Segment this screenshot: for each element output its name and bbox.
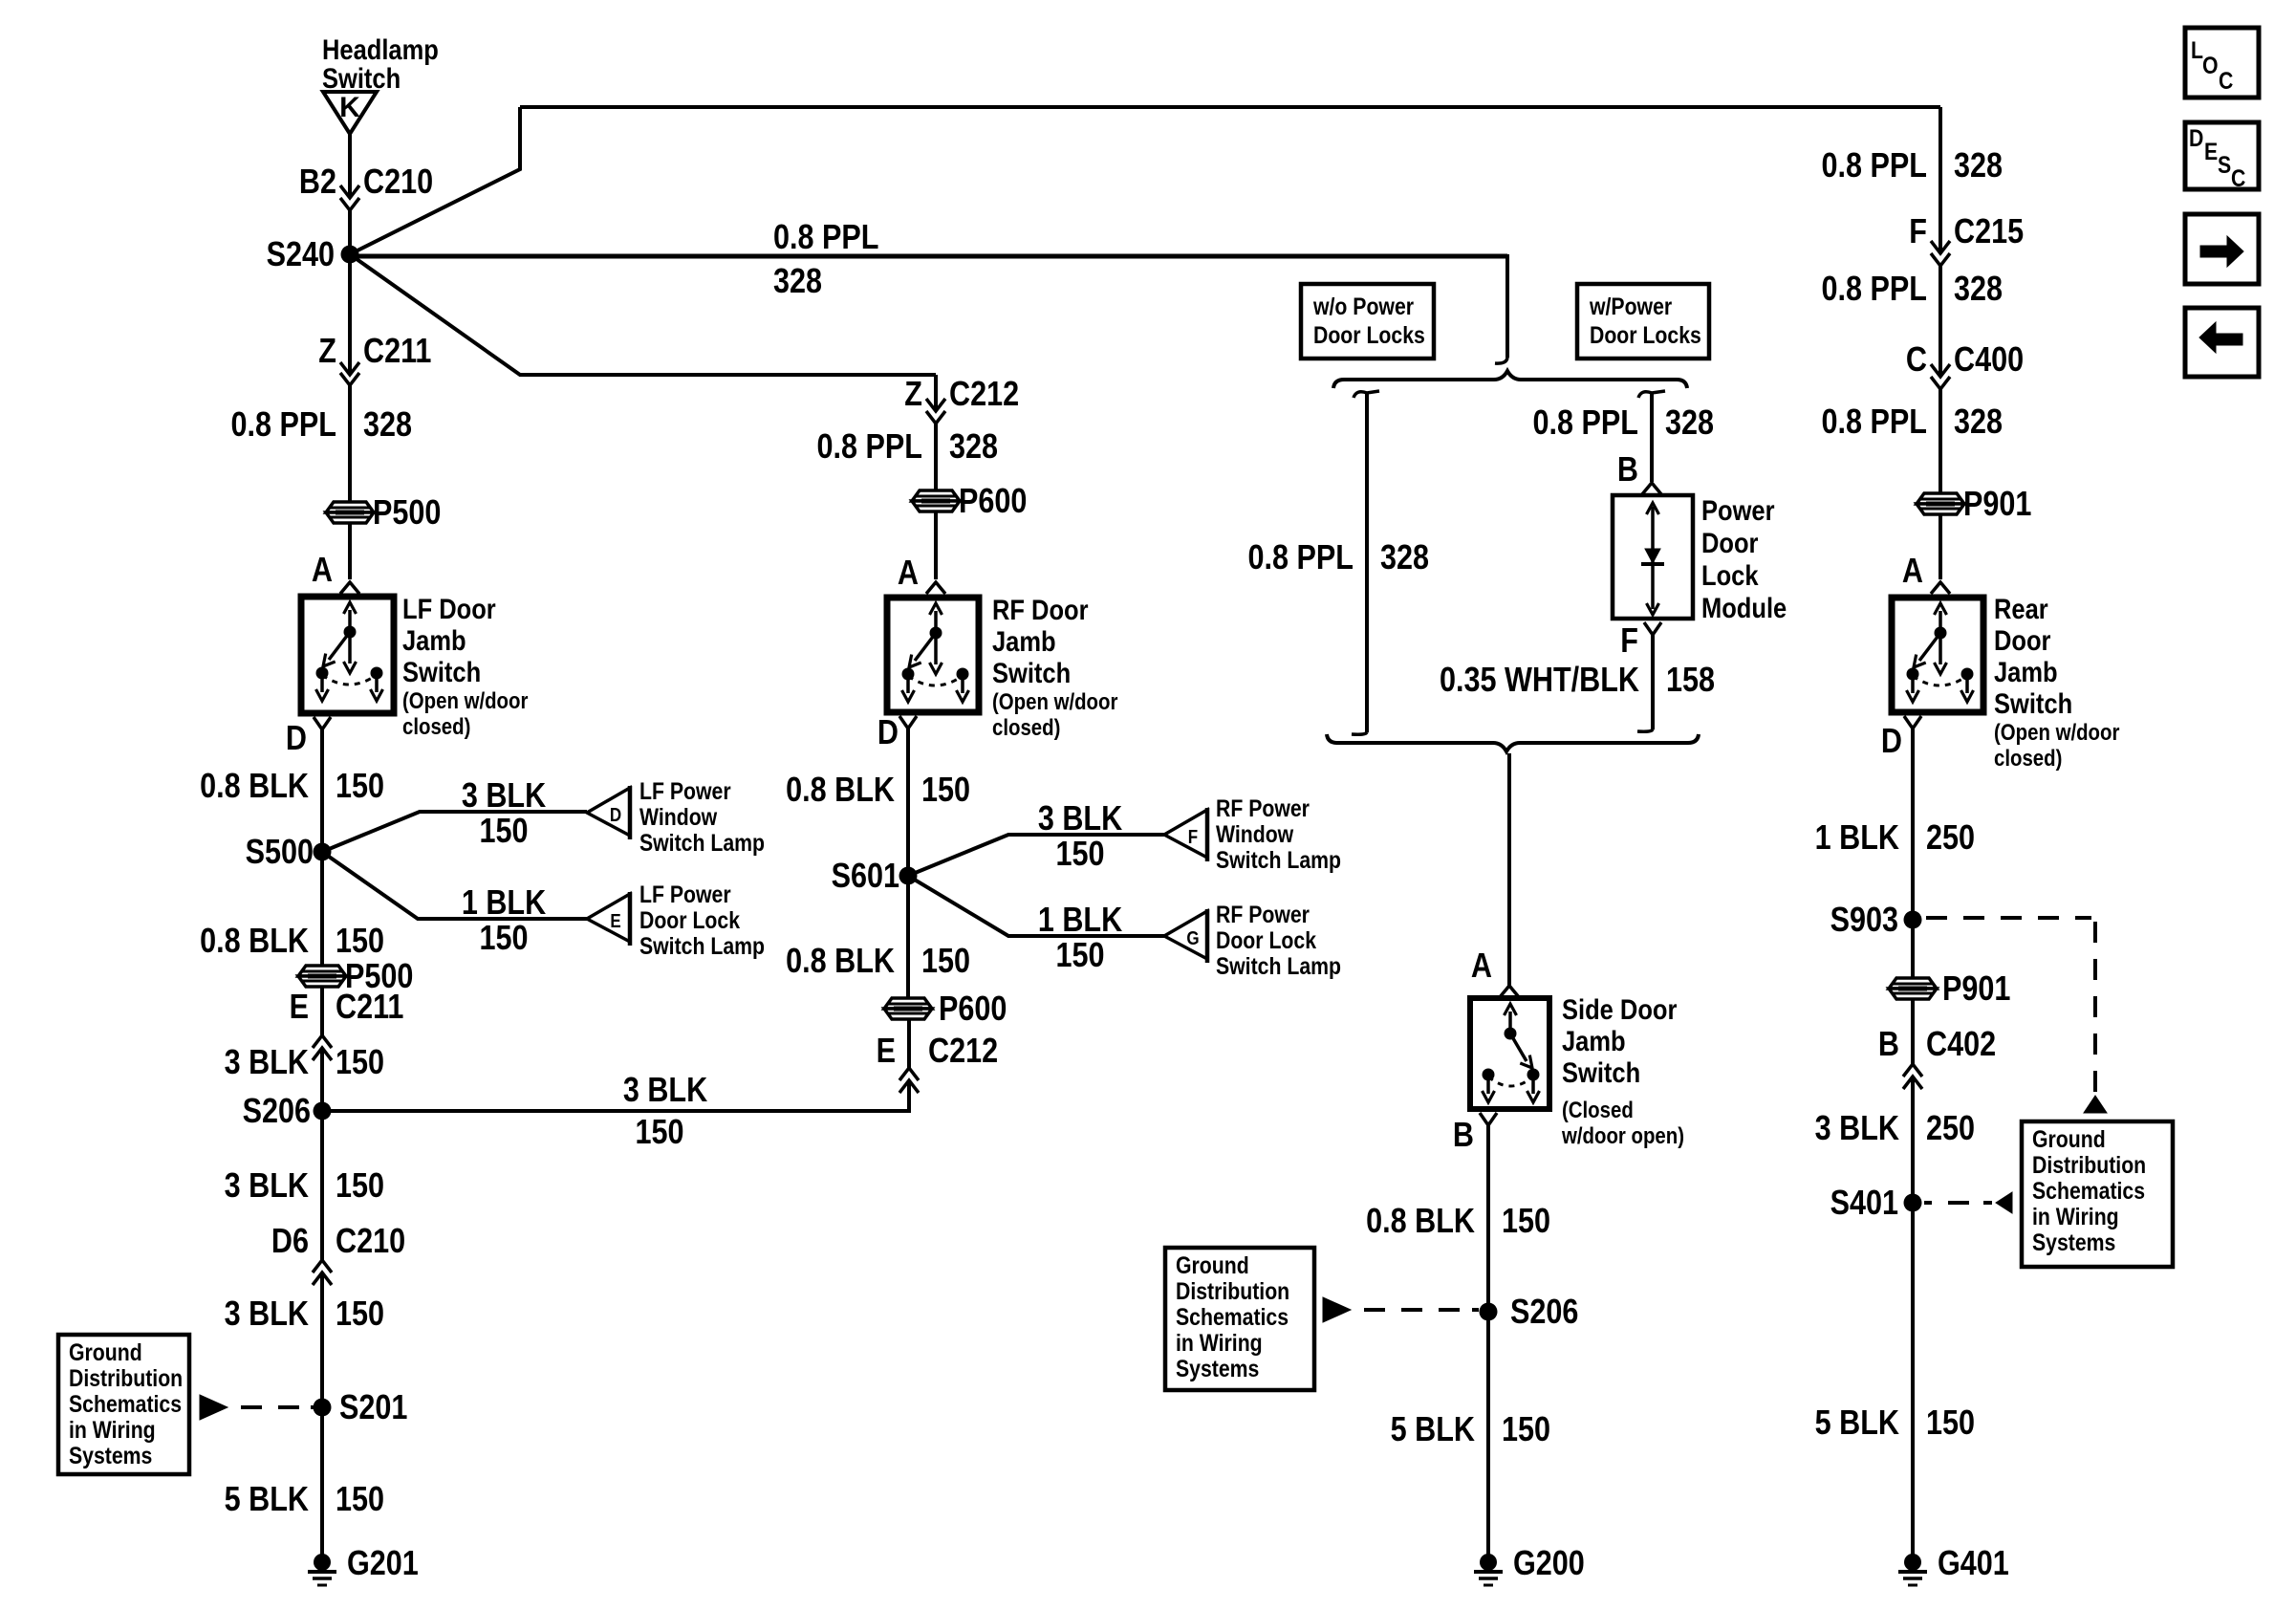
svg-text:5 BLK: 5 BLK xyxy=(225,1481,309,1519)
wire S240 down-right to RF column xyxy=(350,254,936,375)
svg-text:P500: P500 xyxy=(373,494,441,533)
svg-text:Door Locks: Door Locks xyxy=(1590,321,1701,348)
svg-text:150: 150 xyxy=(336,923,384,961)
pin D6 / connector C210 label xyxy=(271,1223,405,1261)
pin B / connector C402 label xyxy=(1878,1026,1996,1064)
wire P901 to C402 pin B xyxy=(1911,999,1915,1064)
svg-text:E: E xyxy=(610,910,620,932)
svg-text:0.8 BLK: 0.8 BLK xyxy=(200,923,309,961)
arrow to S206 (middle) xyxy=(1323,1297,1351,1322)
svg-text:0.8 BLK: 0.8 BLK xyxy=(1366,1203,1475,1241)
wire S903 to P901 lower xyxy=(1911,920,1915,978)
svg-text:G201: G201 xyxy=(347,1545,419,1583)
arrow to ground distribution box (right) xyxy=(2084,1096,2107,1113)
svg-text:Lock: Lock xyxy=(1701,559,1759,591)
svg-text:A: A xyxy=(312,552,333,590)
svg-text:Door Lock: Door Lock xyxy=(639,906,740,933)
svg-text:Distribution: Distribution xyxy=(2032,1151,2146,1178)
wire label 0.8 BLK 150 (RF upper) xyxy=(786,772,970,810)
dashed line to S201 xyxy=(241,1405,316,1409)
svg-text:158: 158 xyxy=(1666,662,1715,700)
branch label 1 BLK 150 (G) xyxy=(1038,902,1122,975)
svg-text:Window: Window xyxy=(1216,820,1294,847)
svg-text:150: 150 xyxy=(1055,836,1104,874)
wire RF pin D to S601 xyxy=(906,729,910,876)
svg-text:LF Door: LF Door xyxy=(402,593,496,624)
svg-text:3 BLK: 3 BLK xyxy=(1038,800,1122,838)
svg-text:0.8 PPL: 0.8 PPL xyxy=(1822,271,1927,309)
wire P600 to RF switch pin A xyxy=(934,511,938,579)
svg-text:Headlamp: Headlamp xyxy=(322,33,439,65)
svg-text:Door: Door xyxy=(1701,527,1759,558)
svg-text:150: 150 xyxy=(1055,937,1104,975)
splice S206 (side) xyxy=(1480,1294,1579,1332)
svg-text:0.8 PPL: 0.8 PPL xyxy=(1822,147,1927,185)
svg-text:Schematics: Schematics xyxy=(2032,1177,2145,1204)
pin B connector (module) xyxy=(1642,483,1661,494)
svg-text:w/Power: w/Power xyxy=(1589,293,1672,319)
pin B2 / connector C210 label xyxy=(299,163,433,202)
svg-text:in Wiring: in Wiring xyxy=(1176,1329,1263,1356)
splice S500 xyxy=(246,834,332,872)
wire S401 to G401 xyxy=(1911,1203,1915,1555)
wire label 0.8 PPL 328 (w/ branch) xyxy=(1533,404,1715,443)
svg-text:0.35 WHT/BLK: 0.35 WHT/BLK xyxy=(1440,662,1639,700)
svg-text:Z: Z xyxy=(904,376,922,414)
svg-text:S201: S201 xyxy=(339,1389,407,1427)
LF door jamb switch label xyxy=(402,593,529,739)
svg-text:0.8 PPL: 0.8 PPL xyxy=(1822,403,1927,442)
wire headlamp switch to C210 xyxy=(348,134,352,198)
svg-text:3 BLK: 3 BLK xyxy=(225,1167,309,1206)
w/ power door locks box xyxy=(1577,284,1709,359)
w/ branch lower foot xyxy=(1637,729,1653,731)
ground distribution schematics box (middle) xyxy=(1165,1248,1314,1390)
wire S240 to C211 xyxy=(348,254,352,375)
svg-text:150: 150 xyxy=(336,1481,384,1519)
connector C210 symbol xyxy=(340,185,359,210)
wire S206 to RF column xyxy=(322,1081,909,1111)
wire label 0.8 BLK 150 (LF lower) xyxy=(200,923,384,961)
wire label 3 BLK 250 xyxy=(1815,1110,1975,1148)
wire w/ power door locks branch xyxy=(1650,393,1654,482)
svg-text:Ground: Ground xyxy=(1176,1251,1249,1278)
svg-text:G401: G401 xyxy=(1938,1545,2009,1583)
RF door jamb switch label xyxy=(992,594,1118,740)
wire label 0.8 PPL 328 (rear mid) xyxy=(1822,271,2004,309)
svg-text:Distribution: Distribution xyxy=(1176,1277,1289,1304)
svg-text:150: 150 xyxy=(479,920,528,958)
svg-text:Jamb: Jamb xyxy=(992,625,1056,657)
svg-text:150: 150 xyxy=(635,1114,683,1152)
wire brace to side door switch xyxy=(1507,753,1511,986)
svg-text:0.8 PPL: 0.8 PPL xyxy=(773,219,878,257)
svg-text:C210: C210 xyxy=(363,163,433,202)
label 0.8 PPL 328 on main run xyxy=(773,219,878,301)
svg-text:5 BLK: 5 BLK xyxy=(1815,1404,1899,1443)
splice S401 xyxy=(1830,1185,1922,1223)
wire main run corner down to brace xyxy=(1495,254,1507,363)
svg-text:0.8 BLK: 0.8 BLK xyxy=(200,768,309,806)
svg-text:Switch Lamp: Switch Lamp xyxy=(1216,952,1341,979)
connector D LF power window switch lamp xyxy=(587,777,765,856)
wire label 0.8 PPL 328 (LF) xyxy=(231,406,413,445)
grommet P600 xyxy=(912,483,1027,521)
svg-text:150: 150 xyxy=(336,1295,384,1334)
wire C402 to S401 xyxy=(1911,1077,1915,1203)
svg-text:Jamb: Jamb xyxy=(402,624,466,656)
svg-text:w/door open): w/door open) xyxy=(1561,1122,1684,1148)
svg-text:D: D xyxy=(2189,124,2203,151)
svg-text:1 BLK: 1 BLK xyxy=(462,884,546,923)
wire C211 to S206 xyxy=(320,1048,324,1111)
dashed line S903 to ground distribution (right) xyxy=(1926,918,2095,1092)
svg-text:328: 328 xyxy=(1380,539,1429,577)
svg-text:Window: Window xyxy=(639,803,718,830)
wire S601 to P600 lower xyxy=(906,876,910,998)
svg-text:D: D xyxy=(1881,723,1902,761)
svg-text:Ground: Ground xyxy=(69,1338,142,1365)
dashed line to S206 (middle) xyxy=(1364,1308,1479,1312)
svg-text:C: C xyxy=(1906,341,1927,380)
wire label 3 BLK 150 (above S201) xyxy=(225,1295,384,1334)
svg-text:D: D xyxy=(610,804,621,826)
pin E / connector C212 label (lower) xyxy=(877,1033,999,1071)
rear door jamb switch xyxy=(1892,598,1983,712)
ground G401 xyxy=(1898,1545,2009,1585)
wire label 5 BLK 150 (rear) xyxy=(1815,1404,1975,1443)
svg-text:328: 328 xyxy=(363,406,412,445)
svg-text:150: 150 xyxy=(921,772,970,810)
branch label 3 BLK 150 (F) xyxy=(1038,800,1122,874)
svg-text:F: F xyxy=(1909,213,1927,251)
wire rear pin D to S903 xyxy=(1911,729,1915,920)
w/o branch foot xyxy=(1352,732,1367,734)
svg-text:(Closed: (Closed xyxy=(1562,1097,1634,1122)
w/o power door locks box xyxy=(1301,284,1434,359)
svg-text:Jamb: Jamb xyxy=(1562,1025,1626,1056)
ground distribution schematics box (left) xyxy=(58,1335,189,1474)
grommet P600 lower xyxy=(884,990,1007,1029)
splice S201 xyxy=(314,1389,408,1427)
svg-text:closed): closed) xyxy=(402,713,470,739)
closing brace xyxy=(1327,734,1699,751)
svg-text:E: E xyxy=(2204,138,2218,164)
svg-text:C212: C212 xyxy=(928,1033,998,1071)
svg-text:Switch Lamp: Switch Lamp xyxy=(1216,846,1341,873)
svg-text:C400: C400 xyxy=(1954,341,2024,380)
wire label 0.8 BLK 150 (RF lower) xyxy=(786,943,970,981)
svg-text:Distribution: Distribution xyxy=(69,1364,183,1391)
svg-text:Side Door: Side Door xyxy=(1562,993,1678,1025)
module internal diode xyxy=(1641,503,1664,615)
svg-text:5 BLK: 5 BLK xyxy=(1391,1411,1475,1449)
wire label 5 BLK 150 (side) xyxy=(1391,1411,1550,1449)
wire label 0.8 BLK 150 (LF upper) xyxy=(200,768,384,806)
svg-text:C210: C210 xyxy=(336,1223,405,1261)
branch label 1 BLK 150 (E) xyxy=(462,884,546,958)
side door jamb switch xyxy=(1470,998,1549,1109)
power door lock module label xyxy=(1701,494,1787,623)
svg-text:S601: S601 xyxy=(832,858,899,896)
svg-text:P901: P901 xyxy=(1963,486,2031,524)
svg-text:Jamb: Jamb xyxy=(1994,656,2058,687)
connector C402 symbol xyxy=(1903,1064,1922,1089)
svg-text:150: 150 xyxy=(336,1044,384,1082)
svg-text:Ground: Ground xyxy=(2032,1125,2106,1152)
LOC legend box xyxy=(2185,28,2259,98)
svg-text:F: F xyxy=(1620,622,1638,661)
label 3 BLK 150 on S206 run xyxy=(623,1072,707,1152)
svg-text:S500: S500 xyxy=(246,834,314,872)
svg-text:C: C xyxy=(2219,67,2234,94)
svg-text:A: A xyxy=(898,555,919,593)
wire S240 up-right to top run xyxy=(350,107,520,254)
wire top run down rear column xyxy=(1939,107,1942,253)
wire label 5 BLK 150 (LF) xyxy=(225,1481,384,1519)
wire label 1 BLK 250 xyxy=(1815,819,1975,858)
svg-text:1 BLK: 1 BLK xyxy=(1815,819,1899,858)
svg-text:C211: C211 xyxy=(363,333,431,371)
power door lock module box xyxy=(1613,495,1693,619)
wire C215 to C400 xyxy=(1939,266,1942,377)
wire S240 main 0.8 PPL run xyxy=(350,254,1507,259)
svg-text:Switch: Switch xyxy=(992,657,1071,688)
pin F / connector C215 label xyxy=(1909,213,2024,251)
splice S240 xyxy=(267,236,359,274)
svg-text:LF Power: LF Power xyxy=(639,777,731,804)
splice S601 xyxy=(832,858,918,896)
wire label 0.8 PPL 328 (rear lower) xyxy=(1822,403,2004,442)
grommet P500 xyxy=(326,494,441,533)
wire S206 to C210 xyxy=(320,1111,324,1260)
svg-text:F: F xyxy=(1188,826,1198,848)
connector C211 lower symbol xyxy=(313,1035,332,1060)
svg-text:S903: S903 xyxy=(1830,902,1898,940)
connector C210 lower symbol xyxy=(313,1260,332,1285)
grommet P901 lower xyxy=(1889,970,2010,1009)
connector G RF power door lock switch lamp xyxy=(1164,901,1341,979)
wire P901 to rear switch pin A xyxy=(1939,514,1942,579)
svg-text:D6: D6 xyxy=(271,1223,309,1261)
svg-text:150: 150 xyxy=(336,768,384,806)
svg-text:328: 328 xyxy=(1954,271,2003,309)
svg-text:1 BLK: 1 BLK xyxy=(1038,902,1122,940)
svg-text:150: 150 xyxy=(479,813,528,851)
connector C212 lower symbol xyxy=(899,1068,919,1093)
w/o branch hook xyxy=(1354,391,1379,398)
svg-text:B2: B2 xyxy=(299,163,336,202)
wire C210 to S240 xyxy=(348,210,352,254)
svg-text:closed): closed) xyxy=(992,714,1060,740)
branch label 3 BLK 150 (D) xyxy=(462,777,546,851)
arrow to S201 xyxy=(200,1395,227,1420)
wire label 3 BLK 150 (below S206) xyxy=(225,1167,384,1206)
opening brace xyxy=(1333,371,1687,388)
svg-text:150: 150 xyxy=(1926,1404,1975,1443)
wire S201 to G201 xyxy=(320,1407,324,1555)
svg-text:0.8 PPL: 0.8 PPL xyxy=(1248,539,1354,577)
right arrow legend box xyxy=(2185,214,2259,284)
svg-text:Switch: Switch xyxy=(1562,1056,1640,1088)
w/ branch hook xyxy=(1638,391,1665,398)
svg-text:P600: P600 xyxy=(959,483,1027,521)
svg-text:Schematics: Schematics xyxy=(1176,1303,1289,1330)
pin A connector (LF) xyxy=(340,582,359,594)
grommet P500 lower xyxy=(298,958,413,996)
wire LF pin D to S500 xyxy=(320,729,324,852)
connector E LF power door lock switch lamp xyxy=(587,881,765,959)
svg-text:150: 150 xyxy=(1502,1411,1550,1449)
wire P500 to C211 pin E xyxy=(320,987,324,1035)
svg-text:Systems: Systems xyxy=(2032,1229,2115,1255)
svg-text:D: D xyxy=(877,714,899,752)
wire side pin B to S206 xyxy=(1486,1125,1490,1312)
pin Z / connector C211 label xyxy=(318,333,431,371)
svg-text:Systems: Systems xyxy=(69,1442,152,1469)
svg-text:P600: P600 xyxy=(939,990,1007,1029)
svg-text:0.8 BLK: 0.8 BLK xyxy=(786,772,895,810)
wire S601 to RF window lamp branch xyxy=(908,835,1164,876)
wire S500 to LF window lamp branch xyxy=(322,812,587,852)
svg-text:C402: C402 xyxy=(1926,1026,1996,1064)
splice S206 xyxy=(243,1093,332,1131)
pin A connector (side) xyxy=(1500,986,1519,997)
svg-text:S401: S401 xyxy=(1830,1185,1898,1223)
svg-text:C212: C212 xyxy=(949,376,1019,414)
svg-text:K: K xyxy=(339,92,360,123)
wire C210 to S201 xyxy=(320,1273,324,1407)
svg-text:A: A xyxy=(1902,553,1923,591)
svg-text:C211: C211 xyxy=(336,989,403,1027)
svg-text:O: O xyxy=(2202,52,2219,78)
svg-text:RF Power: RF Power xyxy=(1216,901,1310,927)
svg-text:w/o Power: w/o Power xyxy=(1312,293,1414,319)
svg-text:0.8 BLK: 0.8 BLK xyxy=(786,943,895,981)
svg-text:Power: Power xyxy=(1701,494,1775,526)
wire label 0.8 BLK 150 (side) xyxy=(1366,1203,1550,1241)
wire top run to rear column xyxy=(520,105,1940,109)
wire label 0.8 PPL 328 (w/o branch) xyxy=(1248,539,1430,577)
svg-text:3 BLK: 3 BLK xyxy=(225,1044,309,1082)
pin D connector (RF) xyxy=(899,716,917,729)
svg-text:0.8 PPL: 0.8 PPL xyxy=(817,428,922,467)
svg-text:250: 250 xyxy=(1926,1110,1975,1148)
svg-text:S: S xyxy=(2218,151,2231,178)
svg-text:A: A xyxy=(1471,947,1492,986)
svg-text:Door: Door xyxy=(1994,624,2051,656)
wire S500 to LF door lock lamp branch xyxy=(322,852,587,919)
svg-text:3 BLK: 3 BLK xyxy=(225,1295,309,1334)
svg-text:Rear: Rear xyxy=(1994,593,2048,624)
pin D connector (rear) xyxy=(1904,716,1921,729)
connector C211 symbol xyxy=(340,362,359,385)
pin F connector (module) xyxy=(1644,622,1661,635)
headlamp switch label xyxy=(322,33,439,94)
wire S500 to P500 lower xyxy=(320,852,324,966)
svg-text:B: B xyxy=(1878,1026,1899,1064)
pin B connector (side) xyxy=(1480,1113,1497,1125)
dashed line S401 to box xyxy=(1924,1201,1992,1205)
svg-text:0.8 PPL: 0.8 PPL xyxy=(1533,404,1638,443)
RF door jamb switch xyxy=(887,598,979,712)
wire C211 to P500 xyxy=(348,385,352,503)
wire C212 to P600 xyxy=(934,424,938,491)
svg-text:B: B xyxy=(1453,1117,1474,1155)
svg-text:S206: S206 xyxy=(243,1093,311,1131)
svg-text:Door Locks: Door Locks xyxy=(1313,321,1425,348)
svg-text:E: E xyxy=(290,989,309,1027)
wire module pin F down xyxy=(1651,635,1655,729)
svg-text:G: G xyxy=(1186,927,1199,949)
svg-text:150: 150 xyxy=(1502,1203,1550,1241)
grommet P901 xyxy=(1917,486,2031,524)
connector C212 symbol xyxy=(926,399,945,424)
svg-text:(Open w/door: (Open w/door xyxy=(992,688,1118,714)
wire C400 to P901 xyxy=(1939,389,1942,494)
svg-text:in Wiring: in Wiring xyxy=(2032,1203,2119,1229)
connector C215 symbol xyxy=(1931,241,1950,266)
svg-text:C: C xyxy=(2231,164,2246,191)
pin C / connector C400 label xyxy=(1906,341,2024,380)
wire to C212 xyxy=(934,375,938,411)
headlamp switch connector K xyxy=(323,92,377,134)
svg-text:3 BLK: 3 BLK xyxy=(462,777,546,816)
svg-text:C215: C215 xyxy=(1954,213,2024,251)
wire P600 to C212 pin E xyxy=(907,1019,911,1068)
svg-text:0.8 PPL: 0.8 PPL xyxy=(231,406,336,445)
pin D connector (LF) xyxy=(314,717,331,729)
wire S206 to G200 xyxy=(1486,1312,1490,1555)
side door jamb switch label xyxy=(1561,993,1684,1148)
svg-text:150: 150 xyxy=(921,943,970,981)
svg-text:(Open w/door: (Open w/door xyxy=(1994,719,2120,745)
pin A connector (RF) xyxy=(926,582,945,594)
svg-text:328: 328 xyxy=(1665,404,1714,443)
svg-text:328: 328 xyxy=(773,263,822,301)
svg-text:G200: G200 xyxy=(1513,1545,1585,1583)
svg-text:E: E xyxy=(877,1033,896,1071)
svg-text:Schematics: Schematics xyxy=(69,1390,182,1417)
svg-text:closed): closed) xyxy=(1994,745,2062,771)
wire label 0.35 WHT/BLK 158 xyxy=(1440,662,1715,700)
svg-text:RF Door: RF Door xyxy=(992,594,1089,625)
pin A connector (rear) xyxy=(1931,582,1950,594)
svg-text:Switch Lamp: Switch Lamp xyxy=(639,829,765,856)
svg-text:328: 328 xyxy=(949,428,998,467)
svg-text:in Wiring: in Wiring xyxy=(69,1416,156,1443)
svg-text:Switch Lamp: Switch Lamp xyxy=(639,932,765,959)
wire S601 to RF door lock lamp branch xyxy=(908,876,1164,936)
wire label 0.8 PPL 328 (rear top) xyxy=(1822,147,2004,185)
svg-text:328: 328 xyxy=(1954,147,2003,185)
arrow to S401 xyxy=(1996,1192,2012,1213)
wire label 3 BLK 150 (above S206) xyxy=(225,1044,384,1082)
svg-text:Z: Z xyxy=(318,333,336,371)
svg-text:Switch: Switch xyxy=(322,62,401,94)
svg-text:S206: S206 xyxy=(1510,1294,1578,1332)
svg-text:250: 250 xyxy=(1926,819,1975,858)
rear door jamb switch label xyxy=(1994,593,2120,771)
DESC legend box xyxy=(2185,122,2259,191)
svg-text:150: 150 xyxy=(336,1167,384,1206)
svg-text:Switch: Switch xyxy=(402,656,481,687)
svg-text:S240: S240 xyxy=(267,236,335,274)
connector C400 symbol xyxy=(1931,364,1950,389)
svg-text:RF Power: RF Power xyxy=(1216,794,1310,821)
splice S903 xyxy=(1830,902,1922,940)
svg-text:B: B xyxy=(1617,451,1638,490)
